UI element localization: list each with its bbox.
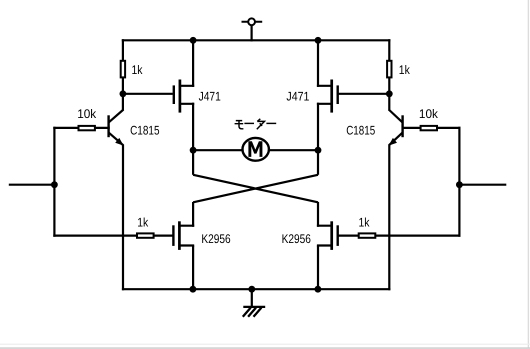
mosfet Q4 K2956 (bottom right) [317, 221, 338, 250]
wire Q5 base [53, 127, 109, 129]
transistor Q5 C1815 (left) [109, 110, 124, 146]
wire power drop [251, 25, 253, 41]
transistor Q6 C1815 (right) [389, 110, 403, 146]
node right input junction [456, 181, 463, 188]
wire right gate [338, 93, 389, 95]
svg-text:J471: J471 [286, 89, 309, 103]
wire Q5 emitter to ground rail [122, 145, 124, 291]
resistor R6 1k (bottom right) [359, 233, 376, 237]
svg-text:K2956: K2956 [201, 232, 230, 246]
ground [243, 288, 265, 317]
wire motor rail [192, 149, 319, 151]
node motor right junction [315, 147, 322, 154]
node motor left junction [190, 147, 197, 154]
node rail-right junction [315, 37, 322, 44]
wire Q6 collector to gate node [388, 94, 390, 111]
mosfet Q1 J471 (top left) [174, 80, 194, 113]
svg-text:K2956: K2956 [282, 232, 311, 246]
wire right lower drain drop [317, 202, 319, 227]
node left gate junction [120, 90, 127, 97]
resistor R3 10k (left) [79, 126, 95, 130]
wire Q2 source to rail [317, 39, 319, 87]
wire left lower gate [53, 235, 172, 237]
wire cross diagonal right-to-left [193, 175, 318, 203]
motor M1 [243, 138, 269, 161]
wire left riser [53, 127, 55, 237]
node ground rail center junction [248, 286, 255, 293]
wire Q4 source to ground rail [317, 246, 319, 291]
wire ground rail [122, 288, 391, 290]
wire right input stub [459, 184, 506, 186]
resistor R2 1k (top right) [387, 61, 391, 78]
wire rail to R2 [388, 39, 390, 60]
svg-text:1k: 1k [132, 63, 144, 77]
wire left motor node drop [192, 149, 194, 175]
node rail-left junction [190, 37, 197, 44]
frame bottom edge [0, 347, 530, 349]
frame bottom inner line [0, 343, 530, 345]
resistor R4 1k (bottom left) [137, 233, 154, 237]
node left input junction [51, 181, 58, 188]
wire Q3 source to ground rail [192, 246, 194, 291]
wire Q1 source to rail [192, 39, 194, 87]
wire left input stub [9, 184, 55, 186]
node ground rail left junction [190, 286, 197, 293]
node right gate junction [386, 90, 393, 97]
frame right edge [527, 0, 529, 349]
svg-text:C1815: C1815 [346, 123, 375, 137]
resistor R5 10k (right) [421, 126, 437, 130]
svg-text:1k: 1k [137, 215, 149, 229]
svg-text:C1815: C1815 [130, 123, 159, 137]
label motor M [248, 141, 262, 157]
power terminal P1 [242, 18, 263, 25]
svg-text:10k: 10k [419, 107, 439, 121]
wire left gate [123, 93, 173, 95]
wire Q6 emitter to ground rail [388, 145, 390, 291]
wire Q6 base [402, 127, 461, 129]
wire right riser [458, 127, 460, 237]
node ground rail right junction [315, 286, 322, 293]
wire cross diagonal left-to-right [193, 175, 318, 203]
wire right lower gate [338, 235, 460, 237]
mosfet Q3 K2956 (bottom left) [173, 221, 194, 250]
wire top rail [122, 39, 391, 41]
svg-text:J471: J471 [199, 89, 221, 103]
wire R2 to gate node [388, 78, 390, 95]
mosfet Q2 J471 (top right) [317, 80, 338, 113]
wire Q2 drain to motor node [317, 103, 319, 152]
wire Q5 collector to gate node [122, 94, 124, 111]
wire Q1 drain to motor node [192, 103, 194, 152]
wire right motor node drop [317, 149, 319, 175]
svg-text:1k: 1k [359, 215, 371, 229]
label motor モーター (drawn katakana) [235, 119, 277, 129]
wire rail to R1 [122, 39, 124, 60]
wire left lower drain drop [192, 202, 194, 227]
resistor R1 1k (top left) [121, 61, 125, 78]
wire R1 to gate node [122, 78, 124, 95]
svg-text:10k: 10k [77, 107, 97, 121]
svg-text:1k: 1k [399, 63, 411, 77]
